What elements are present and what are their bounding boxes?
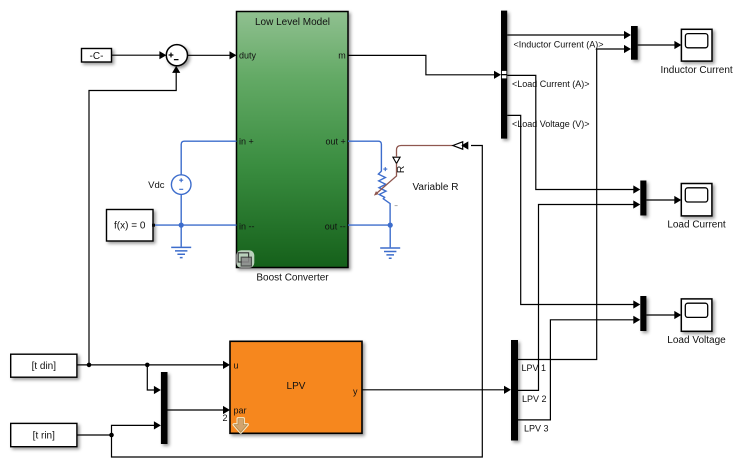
wire par mux to LPV par (168, 406, 231, 423)
wire t din branch to par mux in1 (147, 365, 161, 394)
Vdc source (148, 175, 191, 195)
svg-text:LPV: LPV (287, 381, 306, 392)
physical signal wire R (374, 146, 453, 196)
scope Load Current (667, 184, 726, 231)
svg-text:Inductor Current: Inductor Current (660, 65, 732, 76)
LPV variant badge arrow (234, 419, 247, 433)
wire out+ to resistor top (348, 141, 381, 171)
wire t rin to Variable R control (112, 146, 483, 458)
subsystem badge icon (236, 250, 254, 267)
wire Vdc top to in+ (181, 141, 236, 175)
wire m output to bus selector (348, 55, 501, 79)
svg-text:Load Voltage: Load Voltage (667, 335, 726, 346)
node junction resistor/ground (388, 223, 393, 228)
svg-text:f(x) = 0: f(x) = 0 (114, 221, 146, 232)
resistor Variable R (378, 167, 458, 225)
svg-text:LPV 1: LPV 1 (522, 363, 547, 373)
wire mux1 to scope1 (638, 41, 682, 49)
sum block U1 (166, 45, 187, 66)
wire mux3 to scope3 (646, 311, 681, 319)
svg-text:Load Current: Load Current (667, 220, 726, 231)
wire sum to duty (188, 51, 237, 59)
subsystem LPV (230, 341, 362, 433)
bus selector (501, 11, 507, 139)
wire t din feedback to sum bottom input (89, 66, 180, 365)
physical signal port R of variable resistor (393, 157, 407, 173)
svg-text:Vdc: Vdc (148, 180, 165, 191)
wire t rin to junction (77, 433, 114, 438)
wire mux2 to scope2 (646, 196, 681, 204)
svg-text:m: m (338, 51, 346, 61)
svg-text:duty: duty (239, 51, 257, 61)
wire LPV1 to mux1 (518, 45, 631, 360)
demux LPV outputs (511, 340, 518, 441)
mux3 (640, 296, 646, 331)
source block [t rin] (11, 423, 77, 446)
svg-text:[t din]: [t din] (32, 361, 57, 372)
mux2 (640, 181, 646, 216)
mux par (161, 372, 168, 444)
svg-text:Variable R: Variable R (413, 182, 459, 193)
constant -C- (82, 49, 112, 63)
wire bus out2 to mux2 (507, 75, 640, 193)
scope Inductor Current (660, 29, 732, 76)
svg-text:Boost Converter: Boost Converter (256, 272, 329, 283)
wire f(x)=0 to in-- node (155, 224, 237, 226)
svg-text:out +: out + (326, 137, 346, 147)
ground G1 (171, 225, 191, 258)
wire LPV y to demux (362, 386, 511, 394)
svg-text:[t rin]: [t rin] (33, 431, 55, 442)
subsystem Low Level Model (Boost Converter) (237, 12, 349, 268)
svg-text:par: par (234, 405, 247, 415)
svg-text:<Inductor Current (A)>: <Inductor Current (A)> (514, 39, 604, 49)
svg-text:<Load Voltage (V)>: <Load Voltage (V)> (512, 119, 590, 129)
wire bus out1 to mux1 (507, 31, 631, 39)
wire bus out3 to mux3 (507, 115, 640, 308)
wire LPV3 to mux3 (518, 316, 640, 420)
svg-text:out --: out -- (325, 221, 346, 231)
ground G2 (380, 225, 400, 258)
svg-text:2: 2 (222, 413, 227, 423)
svg-text:<Load Current (A)>: <Load Current (A)> (512, 79, 590, 89)
svg-text:LPV 2: LPV 2 (522, 394, 547, 404)
svg-text:in +: in + (239, 137, 254, 147)
wire -C- to sum (112, 51, 167, 59)
source block [t din] (11, 354, 77, 377)
node junction Vdc/ground (179, 223, 184, 228)
wire out-- to resistor bottom node (348, 224, 390, 226)
svg-text:Low Level Model: Low Level Model (255, 17, 330, 28)
svg-text:in --: in -- (239, 221, 255, 231)
scope Load Voltage (667, 299, 726, 346)
svg-text:-C-: -C- (90, 51, 104, 62)
svg-text:u: u (234, 360, 239, 370)
mux1 (631, 26, 638, 60)
wire LPV2 to mux2 (518, 200, 640, 390)
svg-text:LPV 3: LPV 3 (524, 424, 549, 434)
solver configuration f(x)=0 (107, 210, 156, 242)
wire Vdc bottom to node (180, 194, 182, 225)
wire t din to LPV u (77, 361, 230, 369)
PS converter arrows (453, 141, 468, 149)
svg-text:y: y (353, 387, 358, 397)
